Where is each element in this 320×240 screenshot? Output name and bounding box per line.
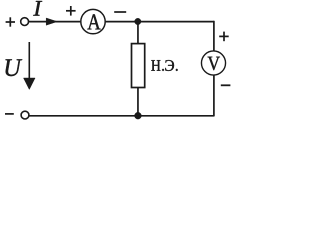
junction node (top) — [135, 18, 141, 24]
voltage arrow head — [24, 78, 36, 90]
terminal (open circle, top left) — [21, 18, 29, 26]
wire (top left segment) — [29, 21, 81, 23]
label U (voltage) — [6, 59, 23, 76]
standard cell box (н.э.) — [132, 44, 145, 88]
wire (top right segment) — [106, 21, 214, 23]
label н.э. : period 2 — [176, 69, 178, 71]
label н.э. : letter Н — [151, 60, 160, 70]
label н.э. : period 1 — [162, 69, 164, 71]
minus sign (voltmeter bottom) — [221, 84, 231, 86]
minus sign (ammeter right) — [114, 11, 126, 13]
terminal polarity label − (bottom left) — [5, 113, 14, 115]
junction node (bottom) — [135, 112, 142, 119]
ammeter circle — [81, 9, 105, 33]
label н.э. : letter Э — [165, 60, 174, 71]
voltmeter circle — [201, 51, 225, 75]
label I (current) — [33, 1, 42, 16]
voltmeter letter V — [208, 57, 220, 70]
wire (middle branch, lower) — [137, 88, 139, 116]
plus sign (ammeter left) — [66, 6, 76, 16]
wire (bottom segment) — [29, 115, 214, 117]
current direction arrow — [46, 18, 57, 25]
wire (middle branch, upper) — [137, 22, 139, 44]
plus sign (voltmeter top) — [219, 32, 229, 42]
wire (right side, lower vertical) — [213, 75, 215, 117]
voltage arrow shaft — [28, 42, 30, 80]
terminal (open circle, bottom left) — [21, 111, 29, 119]
terminal polarity label + (top left) — [6, 17, 15, 26]
ammeter letter A — [87, 14, 100, 29]
wire (right side, upper vertical) — [213, 21, 215, 51]
